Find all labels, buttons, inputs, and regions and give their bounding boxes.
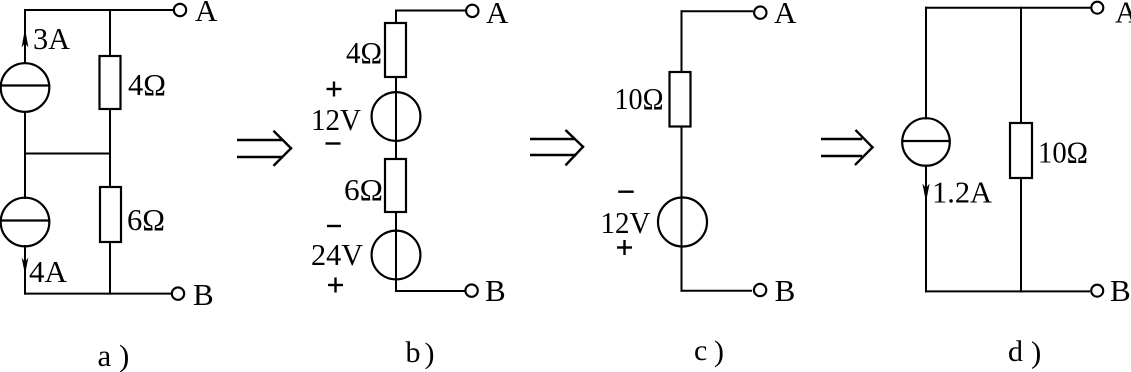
svg-text:c: c: [694, 334, 707, 367]
svg-text:A: A: [195, 0, 218, 28]
svg-text:a: a: [98, 338, 112, 372]
svg-text:): ): [425, 337, 435, 370]
svg-text:4A: 4A: [29, 254, 68, 289]
svg-text:): ): [714, 335, 724, 368]
svg-text:B: B: [485, 273, 506, 308]
svg-text:A: A: [1115, 0, 1131, 30]
svg-text:4Ω: 4Ω: [346, 35, 382, 70]
svg-text:12V: 12V: [601, 205, 652, 240]
svg-text:1.2A: 1.2A: [932, 175, 993, 210]
svg-text:12V: 12V: [311, 102, 362, 137]
svg-text:3A: 3A: [33, 21, 71, 56]
svg-text:4Ω: 4Ω: [128, 67, 166, 102]
svg-text:d: d: [1008, 335, 1023, 368]
svg-text:B: B: [775, 273, 796, 308]
svg-text:10Ω: 10Ω: [1038, 135, 1088, 170]
svg-text:): ): [119, 338, 129, 372]
svg-text:): ): [1031, 335, 1041, 370]
svg-text:b: b: [406, 336, 421, 369]
svg-text:A: A: [486, 0, 509, 30]
svg-text:6Ω: 6Ω: [127, 202, 165, 237]
svg-text:10Ω: 10Ω: [615, 81, 664, 116]
svg-text:B: B: [193, 277, 214, 312]
svg-text:B: B: [1110, 273, 1131, 308]
svg-text:6Ω: 6Ω: [344, 172, 383, 207]
svg-text:A: A: [774, 0, 797, 30]
svg-text:24V: 24V: [311, 237, 364, 272]
